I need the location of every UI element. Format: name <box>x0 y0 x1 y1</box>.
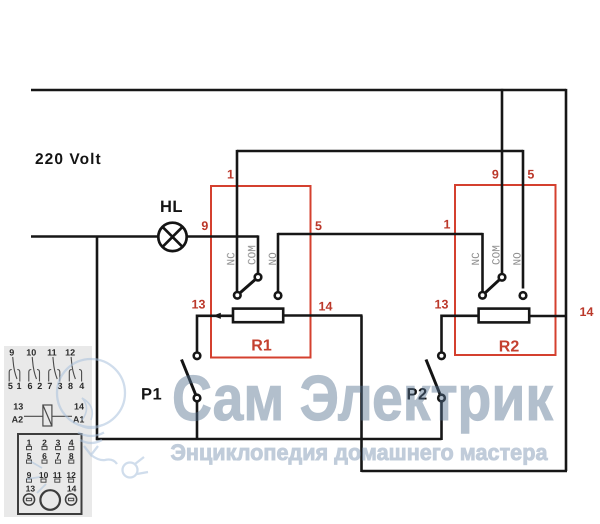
pinout panel screw terminals <box>23 494 76 505</box>
svg-text:220 Volt: 220 Volt <box>35 151 102 168</box>
svg-text:4: 4 <box>69 438 74 448</box>
pinout panel socket outline <box>18 434 82 514</box>
svg-text:R2: R2 <box>499 339 520 356</box>
coil R2 <box>479 309 530 323</box>
wire NO1 to NC2 link <box>278 233 483 236</box>
svg-text:5: 5 <box>527 168 534 182</box>
svg-text:9: 9 <box>492 168 499 182</box>
svg-text:10: 10 <box>39 470 49 480</box>
svg-text:10: 10 <box>26 348 36 358</box>
pinout panel coil pins <box>12 402 85 425</box>
wire R2 pin14 <box>529 315 566 318</box>
svg-text:1: 1 <box>16 381 21 391</box>
svg-text:9: 9 <box>201 219 208 233</box>
svg-text:R1: R1 <box>251 338 272 355</box>
svg-text:1: 1 <box>27 438 32 448</box>
wire upper bus <box>96 438 442 441</box>
pinout panel socket slots row 2 <box>27 460 74 463</box>
svg-text:5: 5 <box>315 219 322 233</box>
wire R1 pin1 vertical <box>236 150 239 292</box>
contact NO R1 <box>275 292 282 299</box>
coil R1 <box>233 309 283 323</box>
svg-text:12: 12 <box>65 348 75 358</box>
svg-text:5: 5 <box>27 451 32 461</box>
relay R2 box <box>455 185 556 355</box>
svg-text:12: 12 <box>66 470 76 480</box>
wire P2 top to coil R2 <box>442 316 479 352</box>
svg-text:3: 3 <box>56 438 61 448</box>
wire P1 top to coil R1 <box>197 316 233 352</box>
pinout panel socket numbers row 1 <box>27 438 74 448</box>
svg-text:11: 11 <box>47 348 57 358</box>
relay pinout panel background <box>4 346 92 517</box>
contact NC R1 <box>234 292 241 299</box>
contact NO R2 <box>520 292 527 299</box>
svg-text:14: 14 <box>67 484 77 494</box>
svg-text:14: 14 <box>74 402 84 412</box>
pinout panel screw slots <box>26 498 73 500</box>
wire R1 NO vertical <box>277 233 280 292</box>
svg-text:14: 14 <box>319 300 333 314</box>
wire right vertical <box>565 89 568 471</box>
pinout panel socket slots row 3 <box>27 479 74 482</box>
svg-text:A2: A2 <box>12 415 24 425</box>
svg-text:Сам Электрик: Сам Электрик <box>172 362 554 434</box>
wire left branch vertical <box>96 237 99 441</box>
svg-text:6: 6 <box>42 451 47 461</box>
svg-text:8: 8 <box>68 381 73 391</box>
wire R1 pin14 drop <box>360 316 363 473</box>
svg-text:7: 7 <box>47 381 52 391</box>
junction arrow on R1 pin13 wire <box>213 313 221 319</box>
wire R2 COM vertical <box>501 89 504 274</box>
lamp HL <box>158 223 186 251</box>
wire R1 pin14 <box>283 314 363 317</box>
wire R2 NO vertical <box>522 150 525 289</box>
lever R1 <box>237 277 258 295</box>
wire 220V line left <box>31 235 158 238</box>
svg-text:9: 9 <box>9 348 14 358</box>
pinout panel coil symbol <box>24 405 72 426</box>
pinout panel socket numbers row 4 <box>26 484 77 494</box>
pinout panel center circle <box>40 490 60 510</box>
svg-text:2: 2 <box>42 438 47 448</box>
svg-text:HL: HL <box>160 198 183 216</box>
contact pivot COM R1 <box>255 274 262 281</box>
pinout panel socket numbers row 3 <box>27 470 76 480</box>
pinout panel pin numbers row <box>8 381 84 391</box>
wire P1 bottom <box>196 402 199 441</box>
wire top supply line <box>31 89 566 92</box>
svg-text:7: 7 <box>56 451 61 461</box>
wire R2 NC vertical <box>481 233 484 292</box>
svg-text:1: 1 <box>227 168 234 182</box>
svg-text:13: 13 <box>13 402 23 412</box>
svg-text:1: 1 <box>444 218 451 232</box>
svg-text:P1: P1 <box>141 386 162 404</box>
svg-text:Энциклопедия домашнего мастера: Энциклопедия домашнего мастера <box>171 440 548 465</box>
svg-text:2: 2 <box>37 381 42 391</box>
svg-text:4: 4 <box>79 381 84 391</box>
wire R1 COM drop <box>257 235 260 273</box>
pinout panel contacts row numbers <box>9 348 75 358</box>
svg-text:5: 5 <box>8 381 13 391</box>
wire lamp to COM <box>187 235 258 238</box>
relay R1 box <box>211 186 311 358</box>
push button P1 <box>182 353 201 402</box>
pinout panel socket slots row 1 <box>27 447 74 450</box>
lever R2 <box>483 277 503 295</box>
svg-text:14: 14 <box>580 305 594 319</box>
svg-text:8: 8 <box>69 451 74 461</box>
svg-text:6: 6 <box>27 381 32 391</box>
svg-text:11: 11 <box>53 470 62 480</box>
pinout panel socket numbers row 2 <box>27 451 74 461</box>
svg-text:13: 13 <box>435 298 449 312</box>
wire lower bus <box>362 470 568 473</box>
contact NC R2 <box>479 292 486 299</box>
watermark bulb sketch <box>27 359 148 493</box>
pinout panel contact symbols <box>9 357 81 382</box>
wire NC1 to NO5 link <box>237 150 523 153</box>
svg-text:13: 13 <box>192 298 206 312</box>
wire P2 bottom <box>440 402 443 441</box>
contact pivot COM R2 <box>499 274 506 281</box>
push button P2 <box>426 353 445 402</box>
svg-text:13: 13 <box>26 484 36 494</box>
